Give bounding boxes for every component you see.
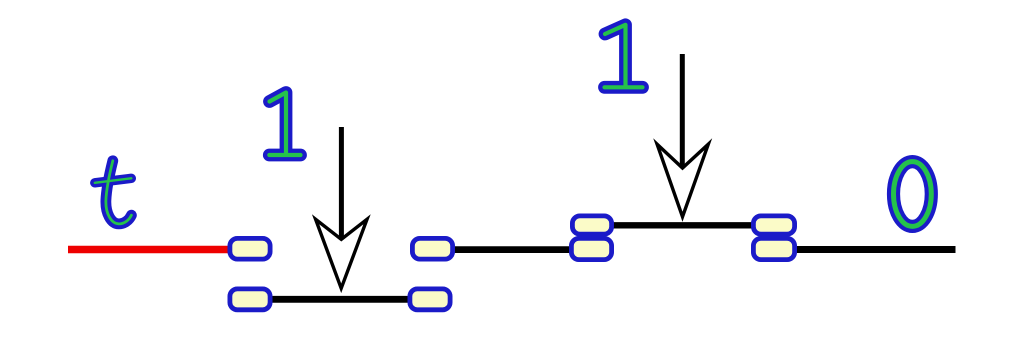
wire: raised black segment between hinge E and hinge G <box>610 222 755 228</box>
wire: black track from hinge D to hinge F <box>450 246 575 253</box>
arrow 1 open head <box>316 219 367 288</box>
hinge pill E (raised stack upper-left) <box>572 216 611 234</box>
arrow 2 shaft <box>680 54 685 168</box>
hinge pill F (stack lower-left) <box>571 238 611 259</box>
hinge pill G (raised stack upper-right) <box>753 216 794 234</box>
arrow 1 shaft <box>339 127 344 239</box>
wire: black outgoing track from hinge H <box>793 246 956 253</box>
label t (tape name, green core with blue outline) <box>95 161 132 224</box>
hinge pill D (upper, start of middle track) <box>412 238 452 259</box>
hinge pill C (lower right of dropped segment) <box>410 289 450 310</box>
wire: lower dropped black segment between hinge B and hinge C <box>250 296 430 303</box>
label 1 (right cell value) <box>605 25 643 88</box>
hinge pill B (lower left) <box>230 289 270 310</box>
label 0 (rightmost cell value) <box>894 162 932 227</box>
arrow 2 open head <box>657 144 708 217</box>
wire: red incoming track t <box>68 246 232 254</box>
hinge pill H (stack lower-right) <box>753 238 794 259</box>
hinge pill A (upper left, end of red track) <box>230 238 270 259</box>
label 1 (left cell value) <box>269 93 300 156</box>
